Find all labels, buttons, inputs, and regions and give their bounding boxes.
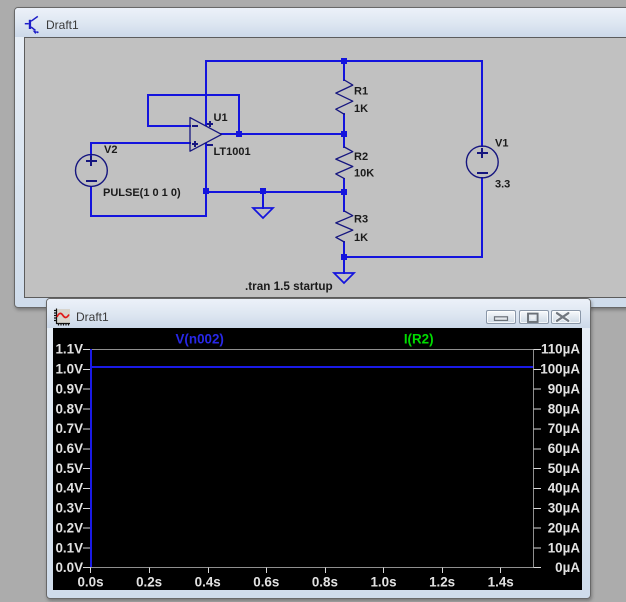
maximize button (519, 310, 549, 324)
svg-text:0.7V: 0.7V (55, 421, 83, 436)
svg-text:60µA: 60µA (548, 441, 581, 456)
wire V2 top lead (90, 143, 92, 155)
wire ground stub GND1 (262, 192, 264, 208)
svg-text:0.2V: 0.2V (55, 520, 83, 535)
svg-text:1.0s: 1.0s (370, 575, 396, 590)
wire ground rail to R2/R3 node (206, 191, 344, 193)
right axis tick marks (534, 350, 542, 568)
close button (551, 310, 581, 324)
svg-text:1.0V: 1.0V (55, 362, 83, 377)
svg-text:U1: U1 (214, 112, 228, 124)
wire feedback minus-input segment (148, 125, 190, 127)
trace V(n002) blue vertical edge (90, 349, 92, 567)
left axis voltage labels (55, 342, 83, 576)
svg-text:0.4V: 0.4V (55, 481, 83, 496)
time axis labels (77, 575, 513, 590)
svg-text:1K: 1K (354, 103, 368, 115)
plot frame right axis (533, 349, 535, 568)
svg-text:R3: R3 (354, 214, 368, 226)
svg-text:I(R2): I(R2) (404, 331, 434, 346)
svg-text:100µA: 100µA (540, 362, 580, 377)
svg-text:V(n002): V(n002) (176, 331, 224, 346)
svg-text:LT1001: LT1001 (214, 146, 251, 158)
svg-text:0.4s: 0.4s (195, 575, 221, 590)
svg-text:R2: R2 (354, 151, 368, 163)
plot black client area (53, 328, 582, 590)
wire R1 top lead (343, 61, 345, 80)
svg-text:70µA: 70µA (548, 421, 581, 436)
plot frame top (91, 349, 534, 351)
svg-text:30µA: 30µA (548, 501, 581, 516)
svg-text:V1: V1 (495, 138, 508, 150)
wire feedback top horizontal (148, 94, 239, 96)
trace V(n002) blue 1V level (90, 366, 533, 368)
wire feedback right drop to output (238, 95, 240, 134)
waveform window icon (53, 308, 71, 326)
svg-text:0.1V: 0.1V (55, 540, 83, 555)
ground GND2 (334, 273, 354, 283)
schematic window icon (24, 14, 42, 34)
svg-text:40µA: 40µA (548, 481, 581, 496)
node junction output / R1 / R2 (341, 131, 347, 137)
wire op-amp V- pin column (205, 144, 207, 216)
wire V2 plus to op-amp plus input (91, 142, 190, 144)
wire R1 bottom lead (343, 114, 345, 134)
svg-text:1.4s: 1.4s (488, 575, 514, 590)
node junction R2 / R3 / ground rail (341, 189, 347, 195)
op-amp plus input mark (192, 141, 198, 147)
svg-text:0.6s: 0.6s (253, 575, 279, 590)
svg-text:.tran 1.5 startup: .tran 1.5 startup (245, 280, 333, 293)
svg-text:0.0V: 0.0V (55, 560, 83, 575)
resistor R2 body (336, 147, 353, 179)
wire top supply rail (206, 60, 482, 62)
wire op-amp V+ pin drop (205, 61, 207, 125)
right axis current labels (540, 342, 580, 576)
op-amp U1 triangle (190, 118, 222, 152)
svg-text:V2: V2 (104, 144, 117, 156)
svg-text:1.1V: 1.1V (55, 342, 83, 357)
svg-text:0.9V: 0.9V (55, 381, 83, 396)
resistor R3 body (336, 211, 353, 242)
svg-text:80µA: 80µA (548, 401, 581, 416)
node junction op-amp V- / ground rail (203, 188, 209, 194)
svg-text:0.3V: 0.3V (55, 501, 83, 516)
schematic window Draft1 (14, 7, 626, 308)
wire op-amp output to R1/R2 node (221, 133, 344, 135)
svg-text:0.8V: 0.8V (55, 401, 83, 416)
op-amp V+ pin mark (207, 121, 213, 127)
wire R2 bottom lead (343, 179, 345, 192)
svg-text:20µA: 20µA (548, 520, 581, 535)
svg-text:110µA: 110µA (541, 342, 580, 357)
svg-text:50µA: 50µA (548, 461, 581, 476)
schematic content area (24, 37, 626, 298)
svg-text:0µA: 0µA (555, 560, 580, 575)
V1 plus mark (477, 148, 488, 158)
svg-text:90µA: 90µA (548, 381, 581, 396)
svg-text:0.2s: 0.2s (136, 575, 162, 590)
wire V2 bottom lead down (90, 187, 92, 216)
wire R3 top lead (343, 192, 345, 211)
wire V1 bottom lead (481, 178, 483, 257)
V2 plus mark (86, 156, 97, 166)
voltage source V1 circle (466, 146, 498, 178)
svg-text:1K: 1K (354, 232, 368, 244)
svg-text:0.0s: 0.0s (77, 575, 103, 590)
wire V1 top lead (481, 61, 483, 146)
svg-text:0.5V: 0.5V (55, 461, 83, 476)
plot frame left axis (90, 349, 92, 568)
svg-text:0.6V: 0.6V (55, 441, 83, 456)
voltage source V2 circle (76, 155, 108, 187)
wire feedback left vertical (147, 95, 149, 126)
node junction ground rail / GND1 stub (260, 188, 266, 194)
wire R3 bottom lead (343, 242, 345, 257)
wire V2 bottom horizontal (91, 215, 206, 217)
wire R2 top lead (343, 134, 345, 147)
minimize button (486, 310, 516, 324)
plot frame bottom time axis (91, 567, 534, 569)
op-amp V- pin mark (207, 144, 213, 146)
svg-text:1.2s: 1.2s (429, 575, 455, 590)
V1 minus mark (477, 172, 488, 174)
waveform window Draft1 (46, 298, 591, 599)
svg-text:0.8s: 0.8s (312, 575, 338, 590)
node junction R3 / V1 / GND2 (341, 254, 347, 260)
svg-text:10K: 10K (354, 168, 374, 180)
time axis tick marks (91, 568, 501, 574)
left axis tick marks (83, 350, 91, 568)
svg-text:10µA: 10µA (548, 540, 581, 555)
wire ground stub GND2 (343, 257, 345, 273)
node junction feedback / output (236, 131, 242, 137)
node junction top rail / R1 (341, 58, 347, 64)
svg-text:3.3: 3.3 (495, 179, 510, 191)
svg-text:R1: R1 (354, 86, 368, 98)
svg-text:PULSE(1 0 1 0): PULSE(1 0 1 0) (103, 187, 181, 199)
ground GND1 (253, 208, 273, 218)
wire R3 bottom to V1 bottom (344, 256, 482, 258)
resistor R1 body (336, 80, 353, 114)
V2 minus mark (86, 180, 97, 182)
op-amp minus input mark (192, 125, 198, 127)
